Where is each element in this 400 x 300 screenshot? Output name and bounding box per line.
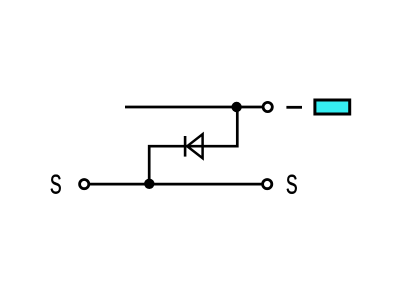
node junction bottom — [144, 179, 154, 189]
label S right — [287, 175, 297, 194]
terminal circle bottom left — [80, 180, 89, 189]
wire diode branch: riser, diode row, drop to top junction — [149, 107, 237, 184]
label S left — [51, 175, 61, 194]
diode D1 triangle — [187, 134, 202, 158]
terminal circle top right — [263, 102, 272, 111]
marker block cyan — [315, 100, 350, 114]
dash separator — [286, 106, 302, 109]
wire top horizontal — [125, 106, 262, 109]
node junction top — [231, 102, 241, 112]
diode D1 cathode bar — [184, 136, 187, 157]
terminal circle bottom right — [263, 180, 272, 189]
wire bottom horizontal — [90, 183, 262, 186]
